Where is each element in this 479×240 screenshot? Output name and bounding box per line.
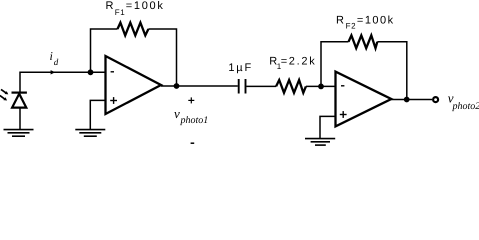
wire: feedback left riser xyxy=(91,29,118,72)
wire: feedback 2 right side down to U2 output xyxy=(377,42,407,100)
wire: photodiode anode to ground xyxy=(19,109,21,130)
resistor RF2 xyxy=(349,35,378,48)
U2 minus xyxy=(341,85,344,87)
wire: photodiode cathode to op-amp U1 inverting input xyxy=(20,72,106,92)
U1 minus xyxy=(111,71,114,73)
svg-text:F1: F1 xyxy=(115,8,126,17)
ground (photodiode) xyxy=(4,130,34,137)
label - (v_photo1 polarity) xyxy=(191,142,195,144)
node D (U2 output junction) xyxy=(404,97,410,103)
node C (U2 inverting junction) xyxy=(318,84,324,90)
wire: U2 non-inverting input to ground xyxy=(320,116,336,138)
ground (U1 + input) xyxy=(75,130,105,137)
label + (v_photo1 polarity) xyxy=(188,97,194,103)
label RF1=100k xyxy=(106,0,165,17)
svg-text:R: R xyxy=(106,0,115,12)
svg-text:F2: F2 xyxy=(346,21,357,30)
wire: U2 output to terminal xyxy=(391,99,432,101)
label R1=2.2k xyxy=(269,56,316,71)
node B (U1 output junction) xyxy=(174,83,180,89)
capacitor C1 1uF xyxy=(239,79,246,94)
svg-text:=100k: =100k xyxy=(126,0,165,12)
U2 plus xyxy=(340,111,347,118)
op-amp U2 xyxy=(336,72,392,127)
node A (inverting input junction) xyxy=(88,69,94,75)
svg-text:1µF: 1µF xyxy=(228,62,253,74)
svg-text:i: i xyxy=(50,49,53,63)
current arrow i_d xyxy=(51,70,56,74)
photodiode D1 xyxy=(12,93,27,108)
light arrow 2 xyxy=(0,96,7,101)
wire: R1 to U2 inverting input xyxy=(306,85,336,87)
wire: feedback right side down to output xyxy=(148,29,176,86)
light arrow 1 xyxy=(1,89,8,94)
svg-text:photo1: photo1 xyxy=(180,115,209,126)
svg-text:photo2: photo2 xyxy=(452,101,479,112)
wire: U1 non-inverting input to ground xyxy=(90,100,105,129)
resistor RF1 xyxy=(118,23,149,36)
svg-text:=2.2k: =2.2k xyxy=(281,56,317,68)
wire: feedback 2 left riser xyxy=(321,42,349,87)
label RF2=100k xyxy=(336,14,395,30)
svg-text:=100k: =100k xyxy=(357,14,395,26)
terminal v_photo2 (open circle) xyxy=(433,97,438,102)
U1 plus xyxy=(110,97,117,104)
svg-text:v: v xyxy=(174,106,180,121)
svg-text:R: R xyxy=(336,14,345,26)
op-amp U1 xyxy=(106,56,162,114)
wire: U1 output to capacitor xyxy=(161,85,238,87)
ground (U2 + input) xyxy=(305,139,335,146)
wire: capacitor to R1 xyxy=(246,85,276,87)
resistor R1 xyxy=(276,80,306,93)
svg-text:d: d xyxy=(54,57,59,67)
